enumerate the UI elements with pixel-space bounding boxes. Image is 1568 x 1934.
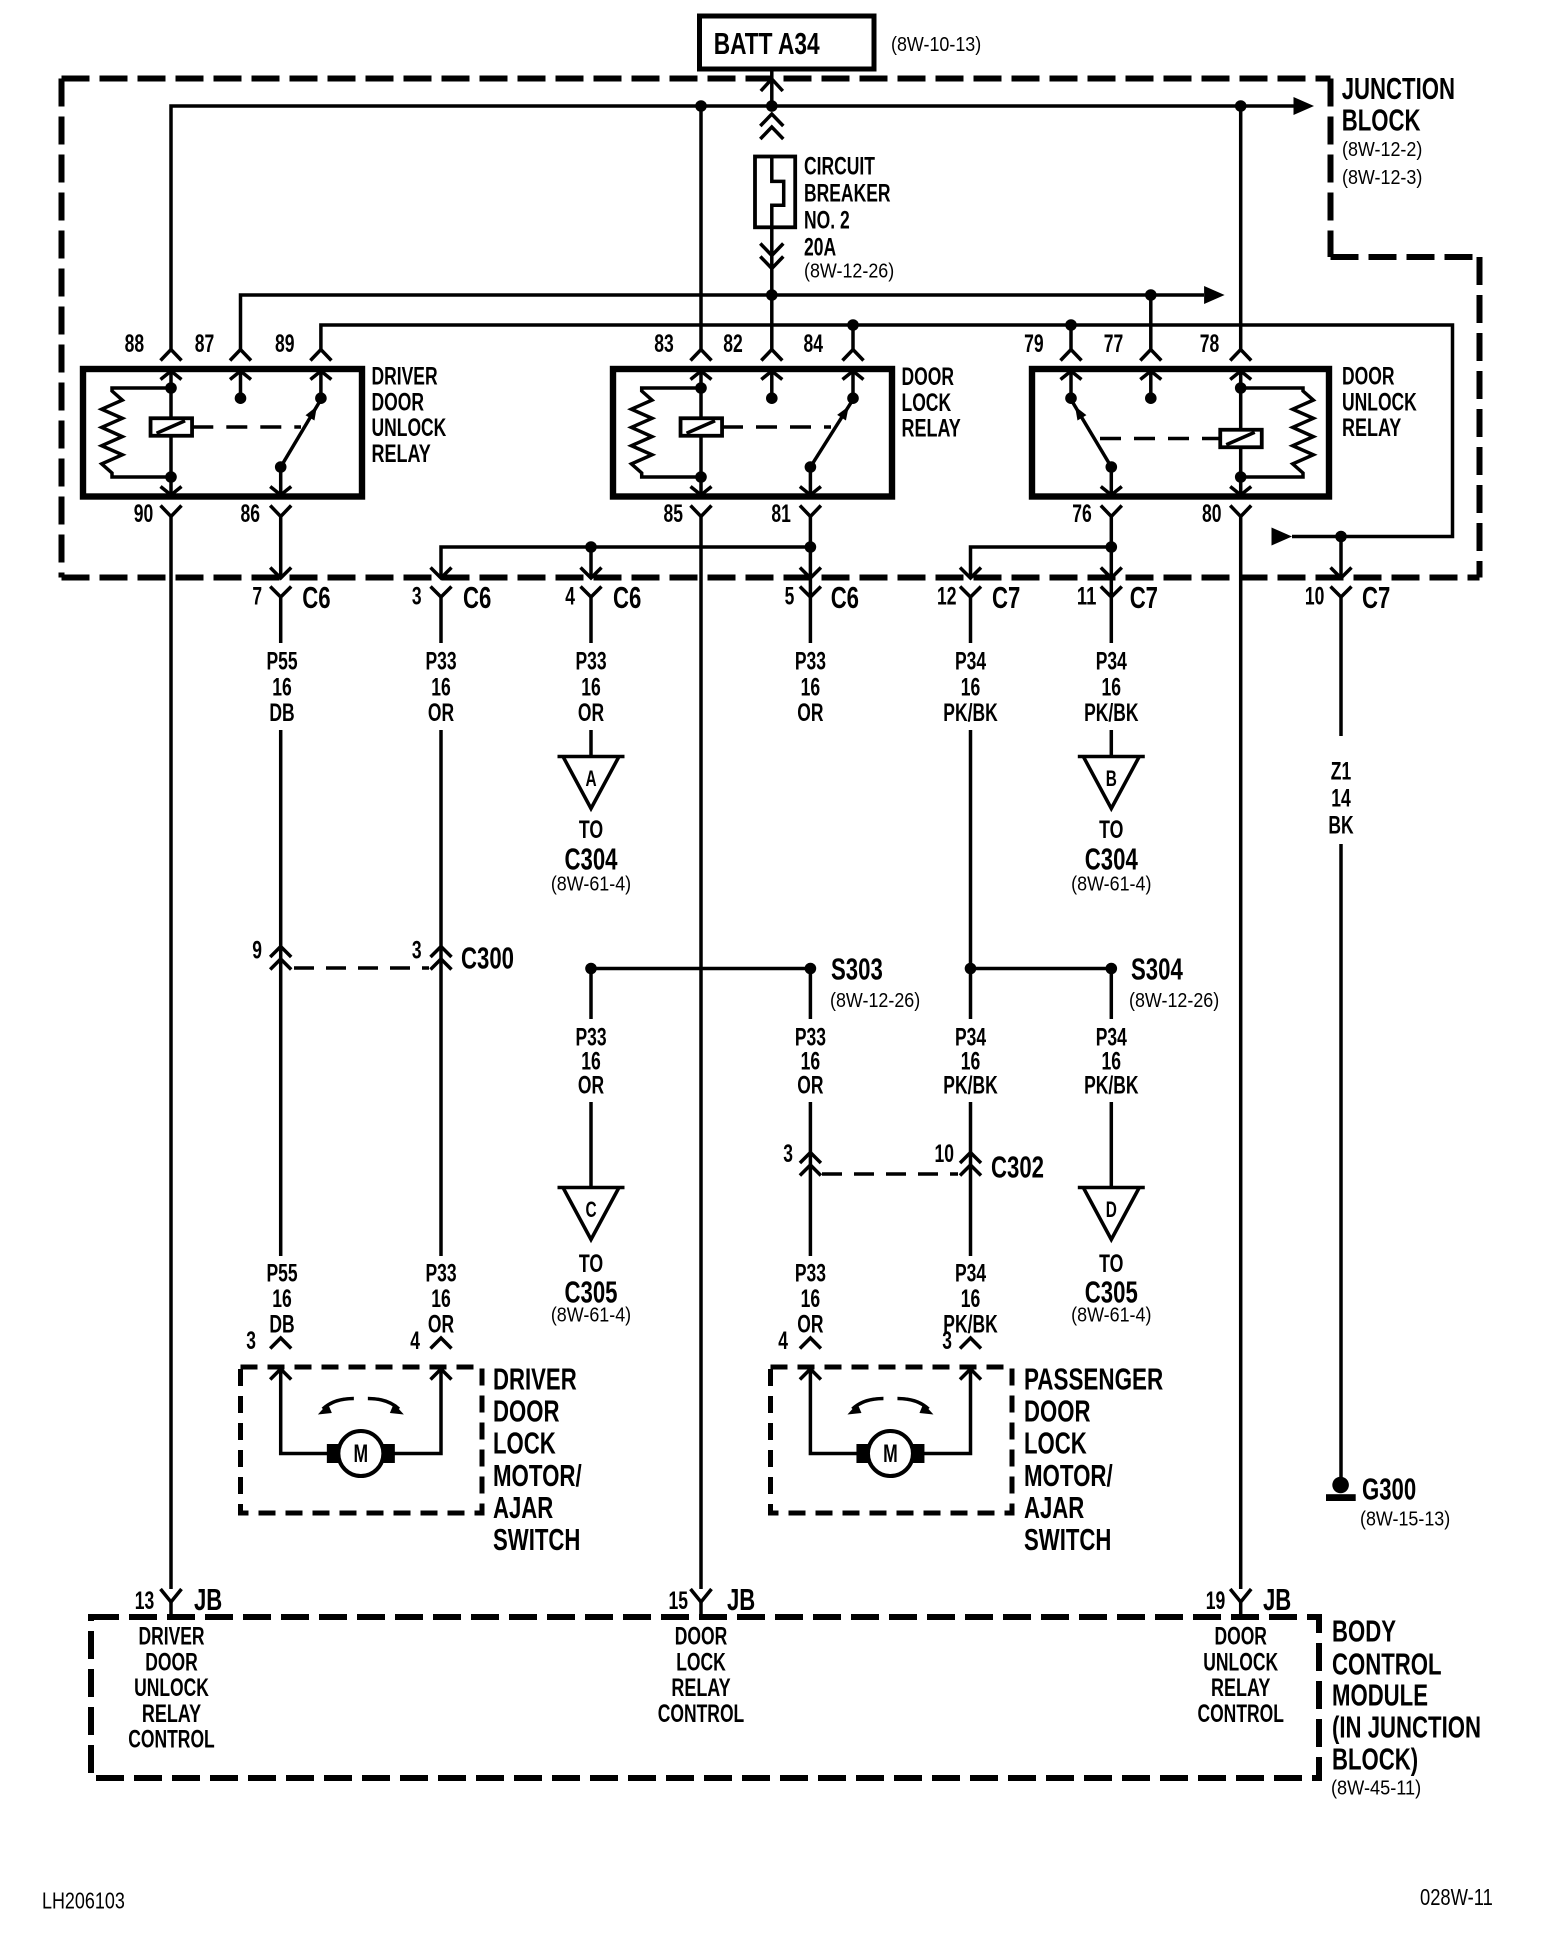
wire rail battery feed y106	[171, 106, 1294, 351]
junction pin83/coil/resistor	[695, 382, 707, 394]
wire C6-4 branch to S303	[591, 967, 810, 971]
node switch common relay3	[1106, 461, 1118, 473]
svg-text:C6: C6	[613, 580, 641, 615]
motor pin 3 connector	[270, 1338, 291, 1349]
wire label P34 16 PK/BK (C7-11)	[1084, 648, 1138, 727]
connector C302 cavity 3 symbol	[800, 1153, 821, 1164]
off-page triangle D	[1078, 1186, 1145, 1190]
svg-text:90: 90	[134, 500, 154, 528]
svg-text:C: C	[585, 1197, 596, 1222]
svg-text:RELAY: RELAY	[142, 1700, 202, 1728]
connector C7 cavity 11 symbol	[1101, 568, 1122, 579]
svg-text:7: 7	[252, 583, 262, 611]
svg-text:84: 84	[804, 330, 824, 358]
off-page arrow right rail2	[1204, 286, 1225, 304]
svg-text:JB: JB	[727, 1582, 755, 1617]
svg-text:CONTROL: CONTROL	[1332, 1646, 1442, 1681]
label motor/ajar switch	[1024, 1361, 1163, 1557]
svg-text:16: 16	[272, 673, 292, 701]
wire coil bottom	[169, 436, 173, 477]
svg-text:MODULE: MODULE	[1332, 1677, 1428, 1712]
pin 82 connector	[761, 350, 782, 361]
coil relay1	[151, 418, 193, 436]
wire pin90 exit	[169, 477, 173, 495]
svg-text:16: 16	[431, 1285, 451, 1313]
node pin82 contact	[766, 392, 778, 404]
wire pin86 exit	[279, 467, 283, 495]
svg-text:89: 89	[275, 330, 295, 358]
label BODY CONTROL MODULE	[1332, 1613, 1481, 1776]
svg-text:(8W-12-26): (8W-12-26)	[804, 260, 894, 283]
wire label P33 16 OR (S303)	[795, 1024, 826, 1100]
connector C6 cavity 5 symbol	[800, 568, 821, 579]
svg-text:P33: P33	[795, 1259, 826, 1287]
motor M armature	[338, 1431, 383, 1476]
svg-text:81: 81	[771, 500, 791, 528]
battery feed box BATT A34	[700, 16, 875, 69]
svg-text:78: 78	[1200, 330, 1220, 358]
svg-text:028W-11: 028W-11	[1420, 1884, 1493, 1910]
svg-text:OR: OR	[797, 699, 823, 727]
coil relay3	[1220, 430, 1262, 448]
connector C300 dashed tie	[294, 966, 429, 970]
off-page arrow to BATT	[761, 79, 783, 91]
svg-text:LOCK: LOCK	[493, 1425, 556, 1460]
svg-text:OR: OR	[428, 699, 454, 727]
svg-text:(8W-12-26): (8W-12-26)	[830, 989, 920, 1012]
wire C7-10 to label	[1339, 597, 1343, 736]
svg-text:SWITCH: SWITCH	[493, 1522, 580, 1557]
svg-text:AJAR: AJAR	[1024, 1490, 1084, 1525]
wire label P33 16 OR lower left	[425, 1259, 456, 1338]
svg-text:16: 16	[801, 673, 821, 701]
wire coil top	[169, 388, 173, 418]
node pin79 contact	[1065, 392, 1077, 404]
label TO C305 (C)	[565, 1250, 618, 1310]
svg-text:(8W-12-2): (8W-12-2)	[1342, 138, 1422, 161]
wire C6-3 to C300	[439, 730, 443, 1256]
wire pin76 to C7-11	[1110, 516, 1114, 643]
node pin77 contact	[1145, 392, 1157, 404]
svg-text:85: 85	[664, 500, 684, 528]
label door lock relay control	[658, 1623, 745, 1729]
svg-text:4: 4	[778, 1327, 788, 1355]
svg-text:5: 5	[785, 583, 795, 611]
label DRIVER DOOR UNLOCK RELAY	[372, 363, 447, 468]
junction coil3/resistor bottom	[1235, 471, 1247, 483]
junction rail2/pin77 feed	[1145, 289, 1157, 301]
svg-text:CONTROL: CONTROL	[1197, 1700, 1284, 1728]
wire C6-4 branch	[589, 547, 593, 577]
svg-text:(8W-10-13): (8W-10-13)	[891, 33, 981, 56]
motor M armature	[868, 1431, 913, 1476]
pin 89 connector	[310, 350, 331, 361]
off-page arrow right rail1	[1294, 97, 1315, 115]
wire C6-7 stem	[279, 597, 283, 643]
wire BATT to rail	[770, 69, 774, 106]
coil2-contact dashed link	[722, 425, 831, 429]
svg-text:D: D	[1106, 1197, 1117, 1222]
pin 85 connector	[691, 487, 712, 496]
node pin89 contact	[315, 392, 327, 404]
svg-text:(IN JUNCTION: (IN JUNCTION	[1332, 1709, 1481, 1744]
svg-text:UNLOCK: UNLOCK	[372, 414, 447, 442]
svg-text:13: 13	[135, 1587, 155, 1615]
svg-text:(8W-15-13): (8W-15-13)	[1360, 1508, 1450, 1531]
svg-text:9: 9	[252, 936, 262, 964]
pin 88 connector	[161, 350, 182, 361]
pin 84 connector	[843, 350, 864, 361]
node pin84 contact	[847, 392, 859, 404]
svg-text:16: 16	[961, 673, 981, 701]
svg-text:MOTOR/: MOTOR/	[493, 1458, 582, 1493]
svg-text:DB: DB	[269, 1311, 294, 1339]
svg-text:RELAY: RELAY	[1342, 414, 1402, 442]
junction C7-12 column	[965, 963, 977, 975]
svg-text:JB: JB	[1263, 1582, 1291, 1617]
wire to triangle D	[1110, 1102, 1114, 1188]
wire rail3 to relay2 pin84	[851, 325, 855, 351]
junction coil2/resistor bottom	[695, 471, 707, 483]
wire label P55 16 DB lower	[266, 1259, 297, 1338]
coil relay2	[681, 418, 723, 436]
connector C6 cavity 7 symbol	[270, 568, 291, 579]
wire pin80 exit	[1239, 477, 1243, 495]
svg-text:16: 16	[801, 1285, 821, 1313]
node pin87 contact	[235, 392, 247, 404]
label DOOR UNLOCK RELAY	[1342, 363, 1417, 442]
wire pin81 to C6-5	[809, 516, 813, 643]
pin 76 connector	[1101, 487, 1122, 496]
wire motor left lead	[281, 1369, 328, 1454]
junction pin88/coil/resistor	[165, 382, 177, 394]
svg-text:DOOR: DOOR	[902, 363, 955, 391]
svg-text:DOOR: DOOR	[493, 1393, 560, 1428]
wire label P33 16 OR lower right	[795, 1259, 826, 1338]
wire relay outputs y547 left	[441, 547, 810, 577]
svg-text:P33: P33	[575, 648, 606, 676]
connector C6 cavity 3 symbol	[431, 568, 452, 579]
coil3-contact dashed link	[1100, 437, 1220, 441]
svg-text:BODY: BODY	[1332, 1613, 1396, 1648]
svg-text:TO: TO	[1099, 816, 1123, 844]
wire label P34 16 PK/BK (S304)	[1084, 1024, 1138, 1100]
ground G300 symbol	[1332, 1477, 1349, 1494]
wire label P34 16 PK/BK (C302)	[943, 1024, 997, 1100]
node switch common relay2	[805, 461, 817, 473]
connector C302 dashed tie	[822, 1172, 958, 1176]
svg-text:(8W-61-4): (8W-61-4)	[1071, 873, 1151, 896]
svg-text:(8W-12-26): (8W-12-26)	[1129, 989, 1219, 1012]
wire pin86 to C6-7	[279, 516, 283, 577]
connector C300 cavity 9 symbol	[270, 947, 291, 958]
svg-text:CONTROL: CONTROL	[658, 1700, 745, 1728]
connector C300 cavity 3 symbol	[431, 947, 452, 958]
wire pin80 to BCM19	[1239, 516, 1243, 1589]
wire pin88 into coil	[169, 371, 173, 388]
pin 87 connector	[230, 350, 251, 361]
wire C6-7 to C300	[279, 730, 283, 1256]
label driver door unlock relay control	[128, 1623, 215, 1754]
svg-text:NO. 2: NO. 2	[804, 206, 850, 234]
pin 86 connector	[270, 487, 291, 496]
wire label P33 16 OR (C6-5)	[795, 648, 826, 727]
splice S303	[805, 963, 817, 975]
svg-text:BLOCK: BLOCK	[1342, 103, 1421, 138]
wire ground branch to C7-10	[1339, 537, 1343, 578]
switch arm relay1	[281, 400, 321, 468]
svg-text:DRIVER: DRIVER	[138, 1623, 204, 1651]
svg-text:S304: S304	[1131, 951, 1183, 986]
svg-text:79: 79	[1024, 330, 1044, 358]
svg-text:UNLOCK: UNLOCK	[134, 1674, 209, 1702]
wire rail1 to relay2 pin83	[699, 106, 703, 351]
wire label Z1 14 BK	[1328, 757, 1353, 839]
coil-contact dashed link	[192, 425, 301, 429]
svg-text:OR: OR	[578, 1072, 604, 1100]
wire pin76 exit	[1110, 467, 1114, 495]
svg-text:87: 87	[195, 330, 215, 358]
off-page triangle C	[558, 1186, 625, 1190]
svg-text:3: 3	[412, 583, 422, 611]
svg-text:16: 16	[1102, 673, 1122, 701]
svg-text:BK: BK	[1328, 811, 1353, 839]
svg-text:DRIVER: DRIVER	[493, 1361, 577, 1396]
svg-text:14: 14	[1331, 784, 1351, 812]
wire motor right lead	[924, 1369, 971, 1454]
wire pin83 into coil	[699, 371, 703, 388]
svg-text:11: 11	[1077, 583, 1097, 611]
connector C302 cavity 10 symbol	[960, 1153, 981, 1164]
wire pin81 exit	[809, 467, 813, 495]
svg-text:C6: C6	[463, 580, 491, 615]
wire pin89 stub	[319, 371, 323, 398]
label DOOR LOCK RELAY	[902, 363, 962, 442]
svg-text:TO: TO	[579, 816, 603, 844]
svg-text:3: 3	[412, 936, 422, 964]
resistor relay3	[1241, 388, 1314, 477]
wire C6-3 stem	[439, 597, 443, 643]
wire rail2 to relay3 pin77	[1149, 295, 1153, 351]
door lock motor dashed box	[241, 1367, 483, 1513]
svg-text:JB: JB	[194, 1582, 222, 1617]
wire label P33 16 OR (C6-4)	[575, 648, 606, 727]
svg-text:DOOR: DOOR	[145, 1648, 198, 1676]
circuit breaker CB2 element	[772, 157, 784, 228]
motor pin 4 connector	[431, 1338, 452, 1349]
svg-text:C7: C7	[1362, 580, 1390, 615]
svg-text:10: 10	[935, 1140, 955, 1168]
svg-text:(8W-61-4): (8W-61-4)	[551, 1304, 631, 1327]
resistor relay1	[102, 388, 171, 477]
wire coil3 top	[1239, 388, 1243, 430]
svg-text:P33: P33	[425, 1259, 456, 1287]
svg-text:PK/BK: PK/BK	[943, 699, 997, 727]
junction rail3/ground branch	[1335, 531, 1347, 543]
svg-text:DOOR: DOOR	[1342, 363, 1395, 391]
svg-text:LOCK: LOCK	[676, 1648, 726, 1676]
wire pin85 to BCM15	[699, 516, 703, 1589]
svg-text:A: A	[585, 766, 596, 791]
junction C6-4 column	[585, 963, 597, 975]
relay K1 driver door unlock relay box	[83, 369, 362, 497]
svg-text:C7: C7	[992, 580, 1020, 615]
pin 77 connector	[1140, 350, 1161, 361]
svg-text:C302: C302	[991, 1149, 1044, 1184]
wire coil2 bottom	[699, 436, 703, 477]
svg-text:12: 12	[937, 583, 957, 611]
svg-text:OR: OR	[797, 1072, 823, 1100]
svg-text:P33: P33	[795, 648, 826, 676]
junction rail1/pin83 feed	[695, 100, 707, 112]
svg-text:DB: DB	[269, 699, 294, 727]
svg-text:M: M	[354, 1440, 369, 1468]
motor pin 3 connector	[960, 1338, 981, 1349]
svg-text:CONTROL: CONTROL	[128, 1726, 215, 1754]
wire label P33 16 OR (C6-3)	[425, 648, 456, 727]
connector C6 cavity 4 symbol	[581, 568, 602, 579]
svg-text:BREAKER: BREAKER	[804, 179, 891, 207]
svg-text:16: 16	[581, 673, 601, 701]
svg-text:88: 88	[125, 330, 145, 358]
junction rail1/pin78 feed	[1235, 100, 1247, 112]
junction rail3/pin84 feed	[847, 319, 859, 331]
motor brush right	[911, 1444, 924, 1463]
wire label P55 16 DB	[266, 648, 297, 727]
svg-text:(8W-45-11): (8W-45-11)	[1331, 1777, 1421, 1800]
pin 78 connector	[1230, 350, 1251, 361]
svg-text:(8W-61-4): (8W-61-4)	[551, 873, 631, 896]
wire coil3 bottom	[1239, 447, 1243, 477]
svg-text:JUNCTION: JUNCTION	[1342, 71, 1455, 106]
motor brush left	[856, 1444, 869, 1463]
wire pin79 stub	[1069, 371, 1073, 398]
svg-text:LOCK: LOCK	[1024, 1425, 1087, 1460]
wire breaker to rail2	[770, 227, 774, 295]
svg-text:BLOCK): BLOCK)	[1332, 1741, 1418, 1776]
svg-text:AJAR: AJAR	[493, 1490, 553, 1525]
junction y547/pin81	[805, 541, 817, 553]
svg-text:P55: P55	[266, 648, 297, 676]
svg-text:LH206103: LH206103	[42, 1888, 125, 1914]
junction rail2/breaker	[766, 289, 778, 301]
junction rail3/pin79 feed	[1065, 319, 1077, 331]
wire S303 to C302	[809, 1102, 813, 1256]
svg-text:3: 3	[246, 1327, 256, 1355]
svg-text:16: 16	[272, 1285, 292, 1313]
svg-text:S303: S303	[831, 951, 883, 986]
junction coil/resistor bottom	[165, 471, 177, 483]
motor brush left	[327, 1444, 340, 1463]
svg-text:RELAY: RELAY	[671, 1674, 731, 1702]
resistor relay2	[631, 388, 701, 477]
svg-text:19: 19	[1206, 1587, 1226, 1615]
label door unlock relay control	[1197, 1623, 1284, 1729]
svg-text:UNLOCK: UNLOCK	[1342, 388, 1417, 416]
svg-text:P34: P34	[955, 1259, 986, 1287]
junction rail1/circuit breaker	[766, 100, 778, 112]
svg-text:MOTOR/: MOTOR/	[1024, 1458, 1113, 1493]
svg-text:OR: OR	[428, 1311, 454, 1339]
connector chevrons above breaker	[760, 114, 783, 126]
junction block dashed boundary	[62, 79, 1480, 578]
svg-text:3: 3	[783, 1140, 793, 1168]
relay K3 door unlock relay box	[1032, 369, 1329, 497]
wire to triangle C	[589, 1102, 593, 1188]
wire pin85 exit	[699, 477, 703, 495]
svg-text:82: 82	[723, 330, 743, 358]
svg-text:83: 83	[654, 330, 674, 358]
junction pin78/coil/resistor	[1235, 382, 1247, 394]
wire label P34 16 PK/BK (C7-12)	[943, 648, 997, 727]
body control module dashed box	[91, 1617, 1319, 1778]
svg-text:77: 77	[1104, 330, 1124, 358]
wire tri-C stub	[589, 969, 593, 1020]
relay K2 door lock relay box	[613, 369, 892, 497]
wire C7-12 stem	[969, 597, 973, 643]
svg-text:86: 86	[241, 500, 261, 528]
svg-text:16: 16	[431, 673, 451, 701]
switch arm relay2	[810, 400, 853, 468]
svg-text:UNLOCK: UNLOCK	[1203, 1648, 1278, 1676]
svg-text:PK/BK: PK/BK	[1084, 1072, 1138, 1100]
svg-text:P55: P55	[266, 1259, 297, 1287]
svg-text:OR: OR	[578, 699, 604, 727]
wire S304 stub	[1110, 969, 1114, 1020]
feed arrow into node y536	[1272, 528, 1293, 546]
svg-text:PK/BK: PK/BK	[943, 1072, 997, 1100]
splice S304	[1106, 963, 1118, 975]
svg-text:80: 80	[1202, 500, 1222, 528]
svg-text:C7: C7	[1130, 580, 1158, 615]
motor rotation arc right	[897, 1399, 928, 1410]
wire S304 tie	[971, 967, 1112, 971]
svg-text:C304: C304	[1085, 841, 1139, 876]
motor rotation arc left	[852, 1399, 883, 1410]
svg-text:20A: 20A	[804, 233, 836, 261]
svg-text:M: M	[883, 1440, 898, 1468]
wire C7-12 to splice	[969, 730, 973, 1019]
svg-text:4: 4	[565, 583, 575, 611]
svg-text:RELAY: RELAY	[372, 440, 432, 468]
svg-text:DOOR: DOOR	[675, 1623, 728, 1651]
label TO C305 (D)	[1085, 1250, 1138, 1310]
svg-text:PASSENGER: PASSENGER	[1024, 1361, 1163, 1396]
svg-text:DRIVER: DRIVER	[372, 363, 438, 391]
connector chevrons below breaker	[760, 244, 783, 256]
wire rail3 to relay3 pin79	[1069, 325, 1073, 351]
wire to triangle A	[589, 730, 593, 757]
wire motor left lead	[810, 1369, 857, 1454]
off-page triangle A	[558, 755, 625, 759]
connector JB cavity 19 symbol	[1230, 1589, 1251, 1602]
wire label P33 16 OR (tri C)	[575, 1024, 606, 1100]
motor brush right	[382, 1444, 395, 1463]
wire pin77 stub	[1149, 371, 1153, 398]
svg-text:G300: G300	[1362, 1471, 1416, 1506]
wire pin84 stub	[851, 371, 855, 398]
pin 80 connector	[1230, 487, 1251, 496]
switch arm relay3	[1071, 400, 1111, 468]
motor rotation arc right	[368, 1399, 399, 1410]
svg-text:Z1: Z1	[1331, 757, 1351, 785]
svg-text:PK/BK: PK/BK	[1084, 699, 1138, 727]
label TO C304 (B)	[1085, 816, 1139, 876]
svg-text:C6: C6	[302, 580, 330, 615]
wire y547 right segment	[971, 547, 1112, 577]
wire pin90 to BCM13	[169, 516, 173, 1589]
circuit breaker CB2 box	[755, 157, 795, 228]
